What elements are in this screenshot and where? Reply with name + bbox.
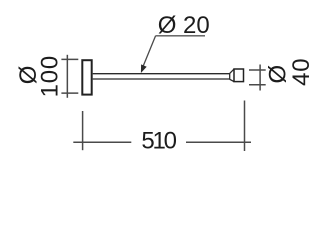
rod bottom outline: [93, 78, 230, 80]
rod top outline: [93, 73, 230, 75]
disc (left end plate): [82, 60, 91, 94]
dimension line D40: [259, 65, 261, 91]
extension line right 510: [244, 101, 246, 152]
rod end edge: [229, 73, 231, 80]
svg-text:40: 40: [288, 58, 315, 86]
tick top D40: [249, 69, 266, 71]
dimension line 510 left segment: [73, 141, 131, 143]
taper bottom edge: [230, 79, 234, 81]
svg-text:100: 100: [36, 55, 63, 97]
dimension line 510 right segment: [186, 141, 251, 143]
tick bottom D100: [61, 92, 78, 94]
taper top edge: [230, 69, 234, 73]
connector (right end): [234, 69, 244, 82]
leader arrowhead D20: [141, 64, 147, 73]
dimension line D100: [66, 55, 68, 98]
tick top D100: [61, 58, 78, 60]
tick bottom D40: [249, 84, 266, 86]
leader diagonal D20: [142, 36, 155, 69]
svg-text:510: 510: [141, 128, 176, 155]
svg-text:Ø 20: Ø 20: [158, 12, 210, 39]
leader underline D20: [156, 35, 205, 37]
extension line left 510: [82, 111, 84, 150]
